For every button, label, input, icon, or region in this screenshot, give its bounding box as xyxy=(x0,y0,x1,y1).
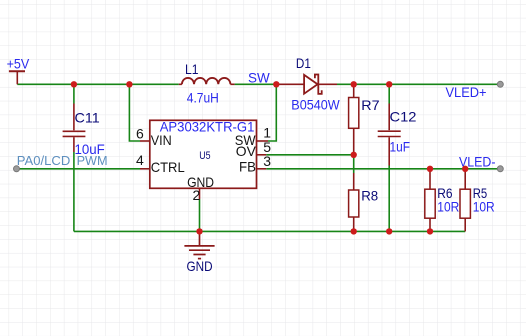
svg-text:C12: C12 xyxy=(390,108,417,124)
pin 6 stub VIN xyxy=(140,140,150,142)
node VLED+ port dot xyxy=(497,81,503,87)
diode D1 schottky xyxy=(278,75,337,94)
capacitor C12 xyxy=(378,104,401,166)
svg-text:R7: R7 xyxy=(361,97,380,113)
node VLED- port dot xyxy=(497,166,503,172)
svg-text:1: 1 xyxy=(263,125,271,141)
junction VIN branch xyxy=(126,81,132,87)
svg-text:4: 4 xyxy=(136,152,144,168)
pin 2 stub GND xyxy=(199,188,201,199)
svg-text:PWM: PWM xyxy=(77,153,108,168)
wire VIN branch xyxy=(129,84,140,141)
resistor R7 xyxy=(349,84,359,154)
junction C11 top xyxy=(71,81,77,87)
power symbol +5V xyxy=(9,71,25,84)
junction GND node xyxy=(196,228,202,234)
svg-text:B0540W: B0540W xyxy=(291,96,340,112)
svg-text:U5: U5 xyxy=(199,150,210,162)
junction R6 bottom xyxy=(427,228,433,234)
svg-text:GND: GND xyxy=(187,174,214,190)
ground symbol xyxy=(184,231,214,258)
wire SW branch xyxy=(268,84,276,141)
pin 1 stub SW xyxy=(257,140,269,142)
pin 5 stub OV xyxy=(257,154,267,156)
node PA0/LCD_PWM port dot xyxy=(14,166,20,172)
inductor L1 xyxy=(179,78,235,84)
junction C12 top xyxy=(386,81,392,87)
svg-text:D1: D1 xyxy=(296,55,311,71)
op-amp U5 body AP3032KTR-G1 xyxy=(150,120,257,188)
resistor R6 xyxy=(425,169,435,232)
resistor R8 xyxy=(349,173,359,231)
svg-text:FB: FB xyxy=(239,158,256,174)
svg-text:+5V: +5V xyxy=(7,56,30,72)
junction R8 bottom xyxy=(351,228,357,234)
wire FB / VLED- rail xyxy=(266,168,500,170)
svg-text:1uF: 1uF xyxy=(390,138,411,154)
svg-text:VLED+: VLED+ xyxy=(446,84,487,100)
svg-text:10R: 10R xyxy=(437,199,459,215)
wire L1 to D1 anode xyxy=(235,83,278,85)
junction C12 bottom xyxy=(386,228,392,234)
svg-text:10R: 10R xyxy=(473,199,495,215)
svg-text:CTRL: CTRL xyxy=(151,159,185,175)
svg-text:OV: OV xyxy=(236,143,257,159)
resistor R5 xyxy=(460,169,470,232)
capacitor C11 xyxy=(63,104,86,153)
wire PA0/LCD_PWM to CTRL xyxy=(17,168,141,170)
svg-text:C11: C11 xyxy=(75,110,101,126)
svg-text:SW: SW xyxy=(248,70,270,86)
wire divider node to R8 xyxy=(353,155,355,173)
wire top rail +5V to L1 xyxy=(17,83,179,85)
junction R6 top xyxy=(427,166,433,172)
svg-text:3: 3 xyxy=(263,153,271,169)
wire C12 branch lower xyxy=(388,166,390,232)
svg-text:4.7uH: 4.7uH xyxy=(187,90,219,106)
wire C11 branch lower xyxy=(73,152,75,231)
svg-text:L1: L1 xyxy=(185,61,199,77)
junction SW branch xyxy=(273,81,279,87)
svg-text:PA0/LCD: PA0/LCD xyxy=(17,153,71,168)
pin 3 stub FB xyxy=(257,168,267,170)
wire D1 cathode to VLED+ xyxy=(337,83,500,85)
svg-text:6: 6 xyxy=(136,125,144,141)
junction R7 top xyxy=(351,81,357,87)
wire C12 branch upper xyxy=(388,84,390,103)
wire GND pin down xyxy=(199,199,201,231)
svg-text:VIN: VIN xyxy=(151,132,172,148)
pin 4 stub CTRL xyxy=(140,168,150,170)
wire OV to divider node xyxy=(266,154,353,156)
svg-text:R8: R8 xyxy=(361,187,378,203)
wire bottom ground rail xyxy=(74,230,465,232)
svg-text:2: 2 xyxy=(193,187,201,203)
wire C11 branch upper xyxy=(73,84,75,103)
svg-text:GND: GND xyxy=(187,258,213,274)
junction R5 top xyxy=(462,166,468,172)
junction OV divider node xyxy=(351,152,357,158)
